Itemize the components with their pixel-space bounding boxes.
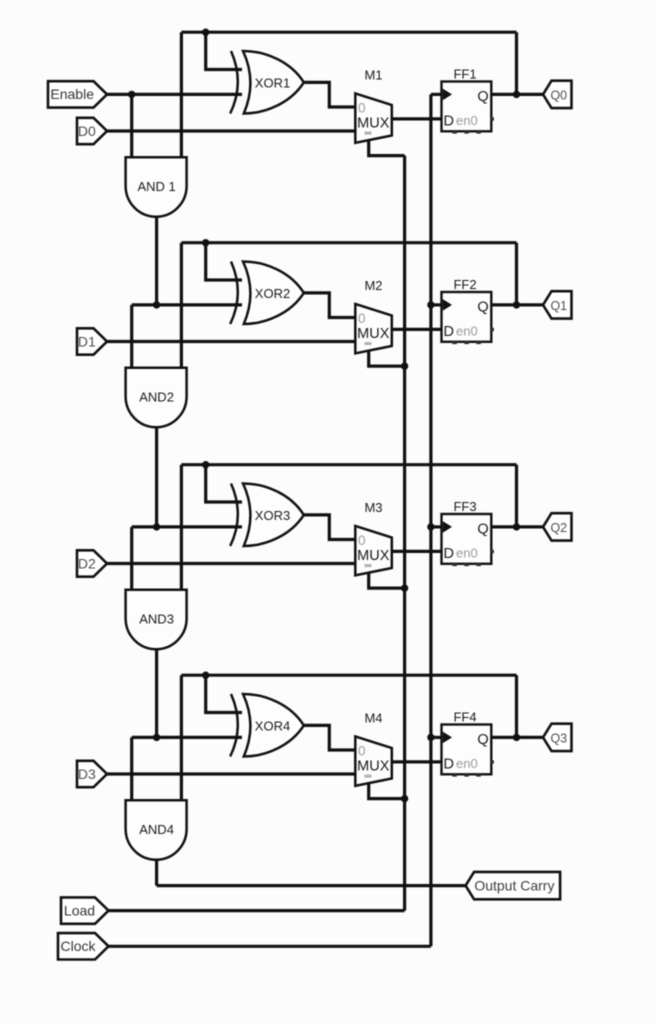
output tag Output Carry (466, 872, 560, 899)
wire: D1 row to MUX input (107, 340, 355, 343)
svg-text:Q2: Q2 (550, 521, 567, 535)
input tag Enable (48, 81, 107, 107)
junction: load bus tap M2 (401, 362, 408, 369)
wire: Clock row (108, 945, 431, 948)
wire: clock bus into FF4 (431, 736, 442, 739)
output tag Q0 (543, 81, 572, 108)
svg-text:XOR2: XOR2 (255, 286, 290, 301)
svg-text:MUX: MUX (357, 758, 390, 774)
wire: MUX M4 select to load bus (369, 783, 405, 799)
flip-flop FF2 (442, 292, 492, 342)
flip-flop FF3 (442, 514, 492, 564)
svg-text:Output Carry: Output Carry (474, 878, 554, 894)
svg-text:Q: Q (477, 89, 488, 105)
wire: MUX M1 output to FF1 D (392, 117, 442, 120)
svg-text:D: D (444, 546, 454, 562)
svg-text:MUX: MUX (357, 548, 390, 564)
wire: AND4 output down to output-carry row (155, 860, 158, 886)
junction: top line to XOR4 (202, 672, 209, 679)
svg-text:MUX: MUX (357, 115, 390, 131)
junction: clock bus tap FF2 (427, 301, 434, 308)
wire: clock bus into FF3 (431, 525, 442, 528)
wire: feedback to XOR1 top input (206, 32, 242, 69)
svg-text:Load: Load (64, 902, 95, 918)
junction: load bus tap M3 (401, 584, 408, 591)
svg-text:M1: M1 (364, 67, 382, 82)
svg-text:D: D (444, 756, 454, 772)
flip-flop FF1 (442, 82, 492, 132)
svg-text:AND3: AND3 (139, 612, 174, 627)
svg-text:Enable: Enable (50, 86, 94, 102)
svg-text:MUX: MUX (357, 326, 390, 342)
wire: XOR1 output to MUX M1 (304, 82, 356, 107)
wire: MUX M3 output to FF3 D (392, 550, 442, 553)
xor gate XOR1 (230, 51, 238, 114)
junction: clock bus tap FF3 (427, 523, 434, 530)
input tag D2 (77, 550, 107, 576)
wire: feedback to AND2 input (180, 243, 183, 368)
svg-text:M3: M3 (364, 500, 382, 515)
wire: MUX M2 output to FF2 D (392, 328, 442, 331)
wire: carry down to AND1 input (130, 94, 133, 157)
svg-text:Q1: Q1 (550, 299, 567, 313)
select pin mark on M3 (365, 564, 372, 567)
wire: Q2 feedback top line stage 3 (181, 463, 516, 466)
wire: output carry row (157, 884, 466, 887)
svg-text:Clock: Clock (60, 938, 96, 954)
xor gate XOR2 (230, 262, 238, 325)
svg-text:AND 1: AND 1 (137, 179, 175, 194)
clock pin arrow FF4 (443, 732, 452, 744)
wire: AND2 output to stage 3 carry (155, 427, 158, 527)
junction: Q1 output node (513, 301, 520, 308)
wire: MUX M1 select to load bus (369, 140, 405, 156)
input tag D1 (77, 328, 107, 354)
wire: carry down to AND3 input (130, 527, 133, 590)
wire: feedback to AND4 input (180, 675, 183, 800)
wire: FF3 Q to Q2 tag (491, 525, 543, 528)
input tag Load (61, 897, 109, 923)
svg-text:FF1: FF1 (453, 67, 476, 82)
svg-text:XOR4: XOR4 (255, 718, 290, 733)
wire: XOR3 output to MUX M3 (304, 515, 356, 540)
junction: Q3 output node (513, 734, 520, 741)
wire: clock bus into FF1 (431, 93, 442, 96)
svg-text:D1: D1 (78, 333, 96, 349)
wire: FF1 Q to Q0 tag (491, 93, 543, 96)
wire: XOR4 output to MUX M4 (304, 725, 356, 750)
wire: FF4 Q to Q3 tag (491, 736, 543, 739)
select pin mark on M2 (365, 342, 372, 345)
svg-text:M2: M2 (364, 278, 382, 293)
wire: XOR2 output to MUX M2 (304, 293, 356, 318)
wire: feedback to XOR2 top input (206, 243, 242, 280)
wire: feedback to XOR3 top input (206, 465, 242, 502)
input tag D3 (77, 761, 107, 787)
svg-text:Q3: Q3 (550, 731, 567, 745)
svg-text:D3: D3 (78, 766, 96, 782)
wire: Q0 junction riser stage 1 (515, 32, 518, 94)
wire: Enable row to XOR1 input (107, 93, 242, 96)
output tag Q2 (543, 513, 572, 540)
wire: clock bus into FF2 (431, 303, 442, 306)
junction: carry into stage 4 (153, 734, 160, 741)
clock pin arrow FF1 (443, 89, 452, 101)
svg-text:AND2: AND2 (139, 390, 174, 405)
svg-text:D: D (444, 324, 454, 340)
clock pin arrow FF3 (443, 521, 452, 533)
wire: clock bus (429, 94, 432, 946)
svg-text:Q: Q (477, 521, 488, 537)
svg-text:D2: D2 (78, 555, 96, 571)
junction: Q2 output node (513, 523, 520, 530)
svg-text:Q: Q (477, 732, 488, 748)
input tag Clock (58, 933, 109, 959)
wire: carry row into XOR2 input (132, 303, 242, 306)
svg-text:D0: D0 (78, 123, 96, 139)
wire: Q2 junction riser stage 3 (515, 465, 518, 527)
pin nubs FF1 (452, 130, 457, 133)
svg-text:FF2: FF2 (453, 277, 476, 292)
wire: AND1 output to stage 2 carry (155, 217, 158, 305)
wire: Q0 feedback top line stage 1 (181, 31, 516, 34)
wire: Load row (108, 909, 405, 912)
xor gate XOR3 (230, 484, 238, 547)
wire: feedback to AND1 input (180, 32, 183, 157)
junction: carry into stage 3 (153, 523, 160, 530)
and gate AND2 (126, 368, 187, 427)
junction: Enable split (128, 91, 135, 98)
pin nubs FF2 (452, 341, 457, 344)
svg-text:0: 0 (358, 101, 366, 116)
svg-text:AND4: AND4 (139, 822, 174, 837)
wire: load select bus (403, 156, 406, 911)
wire: AND3 output to stage 4 carry (155, 649, 158, 737)
wire: carry row into XOR4 input (132, 736, 242, 739)
svg-text:en0: en0 (456, 324, 478, 339)
junction: top line to XOR2 (202, 239, 209, 246)
wire: Q3 feedback top line stage 4 (181, 674, 516, 677)
and gate AND 1 (126, 157, 187, 216)
svg-text:en0: en0 (456, 546, 478, 561)
and gate AND4 (126, 800, 187, 859)
select pin mark on M1 (365, 132, 372, 135)
clock pin arrow FF2 (443, 299, 452, 311)
mux M1 (355, 93, 392, 142)
junction: top line to XOR1 (202, 29, 209, 36)
svg-text:0: 0 (358, 744, 366, 759)
svg-text:Q0: Q0 (550, 88, 567, 102)
junction: load bus tap M4 (401, 795, 408, 802)
wire: carry down to AND4 input (130, 737, 133, 800)
junction: top line to XOR3 (202, 461, 209, 468)
svg-text:en0: en0 (456, 756, 478, 771)
svg-text:XOR1: XOR1 (255, 75, 290, 90)
svg-text:Q: Q (477, 299, 488, 315)
svg-text:FF4: FF4 (453, 710, 476, 725)
junction: carry into stage 2 (153, 301, 160, 308)
wire: carry down to AND2 input (130, 305, 133, 368)
xor gate XOR4 (230, 694, 238, 757)
svg-text:XOR3: XOR3 (255, 508, 290, 523)
wire: MUX M3 select to load bus (369, 572, 405, 588)
svg-text:0: 0 (358, 533, 366, 548)
wire: FF2 Q to Q1 tag (491, 303, 543, 306)
wire: D3 row to MUX input (107, 772, 355, 775)
wire: Q1 junction riser stage 2 (515, 243, 518, 305)
svg-text:D: D (444, 113, 454, 129)
junction: clock bus tap FF4 (427, 734, 434, 741)
output tag Q3 (543, 724, 572, 751)
output tag Q1 (543, 291, 572, 318)
pin nubs FF4 (452, 773, 457, 776)
junction: Q0 output node (513, 91, 520, 98)
and gate AND3 (126, 590, 187, 649)
svg-text:FF3: FF3 (453, 499, 476, 514)
wire: D2 row to MUX input (107, 562, 355, 565)
svg-text:en0: en0 (456, 113, 478, 128)
wire: Q1 feedback top line stage 2 (181, 241, 516, 244)
wire: feedback to AND3 input (180, 465, 183, 590)
wire: MUX M2 select to load bus (369, 350, 405, 366)
mux M3 (355, 526, 392, 575)
wire: carry row into XOR3 input (132, 525, 242, 528)
pin nubs FF3 (452, 563, 457, 566)
svg-text:0: 0 (358, 311, 366, 326)
mux M2 (355, 304, 392, 353)
svg-text:M4: M4 (364, 710, 382, 725)
flip-flop FF4 (442, 725, 492, 775)
wire: MUX M4 output to FF4 D (392, 760, 442, 763)
input tag D0 (77, 118, 107, 144)
wire: D0 row to MUX input (107, 129, 355, 132)
wire: Q3 junction riser stage 4 (515, 675, 518, 737)
wire: feedback to XOR4 top input (206, 675, 242, 712)
select pin mark on M4 (365, 775, 372, 778)
mux M4 (355, 736, 392, 785)
